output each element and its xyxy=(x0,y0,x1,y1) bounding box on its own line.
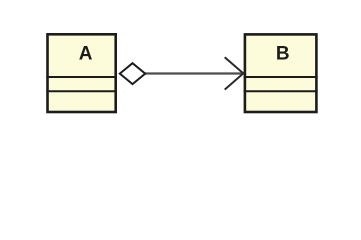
aggregation diamond at A xyxy=(120,63,145,84)
class A separator 1 xyxy=(46,76,117,78)
open arrowhead at B xyxy=(225,57,244,89)
class A separator 2 xyxy=(46,90,117,92)
class B separator 1 xyxy=(244,76,318,78)
class box A xyxy=(46,34,117,112)
class B separator 2 xyxy=(244,90,318,92)
svg-text:B: B xyxy=(276,44,290,65)
svg-text:A: A xyxy=(79,44,93,65)
wire: association line A to B xyxy=(143,72,242,74)
class box B xyxy=(244,34,318,112)
